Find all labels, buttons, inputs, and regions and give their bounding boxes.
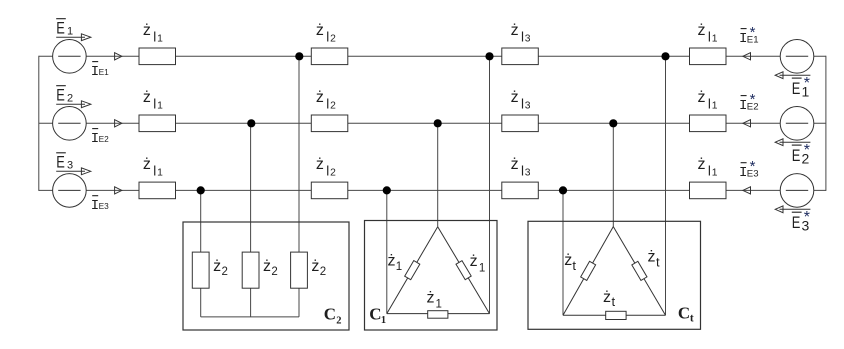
- label E1*: [792, 75, 810, 99]
- label Z2 #2: [263, 258, 278, 278]
- svg-text:ż: ż: [698, 22, 706, 39]
- svg-text:1: 1: [157, 100, 163, 111]
- impedance Zl1 right phase 2: [690, 115, 727, 132]
- wire drop phase1 to C1 right vertex: [489, 56, 491, 313]
- junction node 8: [383, 186, 391, 194]
- svg-text:C: C: [369, 305, 381, 324]
- label Z1 right: [470, 253, 486, 274]
- wire drop phase1 to C2 right: [298, 56, 300, 317]
- svg-text:1: 1: [157, 167, 163, 178]
- svg-text:ż: ż: [316, 89, 324, 106]
- label Zl1 phase 1: [698, 22, 718, 45]
- svg-text:E: E: [792, 147, 801, 165]
- current arrow I_E3*: [743, 187, 751, 194]
- impedance Zl3 phase 1: [502, 48, 539, 65]
- label Zl3 phase 1: [511, 22, 531, 45]
- junction node 2: [485, 52, 493, 60]
- svg-text:2: 2: [330, 33, 336, 44]
- svg-text:ż: ż: [316, 156, 324, 173]
- wire Ct delta left side: [563, 227, 613, 316]
- voltage source E3: [53, 174, 87, 208]
- svg-text:ż: ż: [316, 22, 324, 39]
- svg-text:3: 3: [525, 167, 531, 178]
- svg-text:1: 1: [67, 25, 73, 37]
- svg-text:*: *: [804, 209, 810, 226]
- EMF arrow E1: [56, 34, 91, 41]
- label I_E2: [91, 129, 109, 147]
- label Zl1 phase 2: [143, 89, 163, 112]
- label I_E3*: [739, 158, 759, 181]
- svg-text:l: l: [521, 163, 524, 178]
- wire C2 bottom bus: [201, 316, 299, 318]
- EMF arrow E3*: [775, 206, 810, 213]
- svg-text:*: *: [804, 75, 810, 92]
- wire Ct delta right side: [613, 227, 665, 316]
- svg-text:E: E: [56, 19, 65, 37]
- impedance Zl1 left phase 2: [139, 115, 176, 132]
- svg-text:3: 3: [67, 159, 73, 171]
- svg-text:ż: ż: [263, 258, 271, 275]
- svg-text:l: l: [708, 96, 711, 111]
- impedance Zl1 left phase 1: [139, 48, 176, 65]
- EMF arrow E2*: [775, 139, 810, 146]
- label Zl2 phase 1: [316, 22, 336, 45]
- voltage source E1: [53, 40, 87, 74]
- svg-text:ż: ż: [311, 258, 319, 275]
- wire C1 delta right side: [438, 227, 490, 314]
- svg-text:2: 2: [330, 100, 336, 111]
- svg-text:ż: ż: [427, 289, 435, 306]
- junction node 9: [559, 186, 567, 194]
- svg-text:ż: ż: [143, 89, 151, 106]
- label Zl2 phase 2: [316, 89, 336, 112]
- junction node 6: [609, 119, 617, 127]
- svg-text:t: t: [612, 294, 616, 309]
- wire drop phase3 to Ct left vertex: [562, 190, 564, 315]
- impedance Zl2 phase 2: [311, 115, 348, 132]
- svg-text:l: l: [708, 163, 711, 178]
- voltage source E1*: [780, 40, 814, 74]
- EMF arrow E3: [56, 168, 91, 175]
- impedance Z2 #3: [291, 252, 308, 288]
- impedance Zl2 phase 1: [311, 48, 348, 65]
- svg-text:ż: ż: [698, 89, 706, 106]
- svg-text:ż: ż: [511, 89, 519, 106]
- svg-text:ż: ż: [143, 156, 151, 173]
- svg-text:E1: E1: [99, 67, 110, 77]
- label Zl1 phase 3: [698, 156, 718, 179]
- svg-text:3: 3: [525, 100, 531, 111]
- wire C1 delta left side: [387, 227, 438, 314]
- label Zl2 phase 3: [316, 156, 336, 179]
- svg-text:ż: ż: [511, 22, 519, 39]
- load box C1: [365, 221, 498, 331]
- svg-text:1: 1: [396, 261, 402, 273]
- wire left bus: [38, 56, 40, 191]
- svg-text:1: 1: [712, 100, 718, 111]
- wire right bus: [825, 56, 827, 191]
- svg-text:ż: ż: [648, 249, 656, 266]
- impedance Z2 #1: [192, 252, 209, 288]
- svg-text:2: 2: [330, 167, 336, 178]
- label Z1 bottom: [427, 289, 442, 310]
- label I_E1*: [739, 24, 759, 47]
- wire C1 delta bottom side: [387, 313, 490, 315]
- label Zl1 phase 1: [143, 22, 163, 45]
- svg-text:*: *: [804, 142, 810, 159]
- impedance Zl1 right phase 1: [690, 48, 727, 65]
- impedance Zl2 phase 3: [311, 182, 348, 199]
- impedance Z2 #2: [242, 252, 259, 288]
- svg-text:C: C: [324, 305, 336, 324]
- current arrow I_E1: [115, 53, 122, 60]
- impedance Zt bottom: [606, 311, 626, 319]
- EMF arrow E2: [56, 101, 91, 108]
- svg-text:1: 1: [712, 167, 718, 178]
- svg-text:l: l: [326, 96, 329, 111]
- svg-text:ż: ż: [388, 253, 396, 270]
- label I_E1: [91, 62, 109, 80]
- label Zl3 phase 3: [511, 156, 531, 179]
- voltage source E2: [53, 107, 87, 141]
- svg-text:1: 1: [712, 33, 718, 44]
- wire phase 3 horizontal: [39, 189, 826, 191]
- svg-text:ż: ż: [470, 253, 478, 270]
- voltage source E3*: [780, 174, 814, 208]
- label I_E2*: [739, 91, 759, 114]
- impedance Zt left: [581, 261, 596, 280]
- label Zl1 phase 3: [143, 156, 163, 179]
- svg-text:l: l: [153, 29, 156, 44]
- impedance Zl3 phase 2: [502, 115, 539, 132]
- svg-text:E: E: [792, 80, 801, 98]
- impedance Zl1 left phase 3: [139, 182, 176, 199]
- label Zt left: [564, 252, 576, 273]
- svg-text:2: 2: [67, 92, 73, 104]
- junction node 1: [295, 52, 303, 60]
- label I_E3: [91, 196, 109, 214]
- label Z1 left: [388, 253, 403, 273]
- wire phase 2 horizontal: [39, 122, 826, 124]
- wire drop phase3 to C2 left: [200, 190, 202, 317]
- svg-text:t: t: [690, 313, 694, 325]
- svg-text:2: 2: [222, 266, 228, 278]
- label Ct: [678, 304, 694, 325]
- svg-text:*: *: [750, 158, 756, 175]
- svg-text:l: l: [521, 96, 524, 111]
- svg-text:l: l: [153, 96, 156, 111]
- svg-text:1: 1: [436, 298, 442, 310]
- svg-text:3: 3: [525, 33, 531, 44]
- wire drop phase2 to Ct apex: [612, 123, 614, 226]
- junction node 5: [434, 119, 442, 127]
- svg-text:E: E: [56, 86, 65, 104]
- svg-text:ż: ż: [603, 289, 611, 306]
- svg-text:E: E: [792, 214, 801, 232]
- svg-text:E2: E2: [99, 134, 110, 144]
- svg-text:1: 1: [479, 263, 485, 275]
- label Zt bottom: [603, 289, 616, 309]
- junction node 3: [661, 52, 669, 60]
- EMF arrow E1*: [775, 72, 810, 79]
- load box Ct: [528, 221, 701, 329]
- svg-text:2: 2: [320, 266, 326, 278]
- current arrow I_E2*: [743, 120, 751, 127]
- svg-text:t: t: [656, 255, 660, 270]
- label E3: [56, 153, 73, 172]
- svg-text:l: l: [326, 163, 329, 178]
- svg-text:2: 2: [336, 315, 341, 326]
- label E1: [56, 19, 73, 38]
- svg-text:E3: E3: [99, 201, 110, 211]
- svg-text:ż: ż: [698, 156, 706, 173]
- svg-text:l: l: [326, 29, 329, 44]
- current arrow I_E2: [115, 120, 122, 127]
- svg-text:1: 1: [157, 33, 163, 44]
- label E3*: [792, 209, 810, 233]
- svg-text:*: *: [750, 24, 756, 41]
- svg-text:ż: ż: [213, 258, 221, 275]
- impedance Zl1 right phase 3: [690, 182, 727, 199]
- svg-text:l: l: [521, 29, 524, 44]
- svg-text:l: l: [708, 29, 711, 44]
- svg-text:E: E: [56, 153, 65, 171]
- svg-text:ż: ż: [143, 22, 151, 39]
- impedance Zl3 phase 3: [502, 182, 539, 199]
- wire drop phase2 to C2 middle: [250, 123, 252, 317]
- svg-text:1: 1: [381, 315, 386, 326]
- wire drop phase2 to C1 apex: [437, 123, 439, 226]
- svg-text:ż: ż: [564, 252, 572, 269]
- label C1: [369, 305, 386, 326]
- impedance Z1 bottom: [428, 311, 448, 319]
- impedance Z1 right: [456, 261, 471, 280]
- svg-text:ż: ż: [511, 156, 519, 173]
- voltage source E2*: [780, 107, 814, 141]
- junction node 7: [197, 186, 205, 194]
- svg-text:*: *: [750, 91, 756, 108]
- impedance Zt right: [632, 261, 647, 280]
- wire drop phase1 to Ct right vertex: [665, 56, 667, 315]
- wire phase 1 horizontal: [39, 55, 826, 57]
- svg-text:t: t: [572, 258, 576, 273]
- label E2*: [792, 142, 810, 166]
- wire Ct delta bottom side: [563, 314, 666, 316]
- wire drop phase3 to C1 left vertex: [386, 190, 388, 313]
- label Z2 #1: [213, 258, 228, 278]
- svg-text:l: l: [153, 163, 156, 178]
- current arrow I_E3: [115, 187, 122, 194]
- label E2: [56, 86, 73, 105]
- label Zl1 phase 2: [698, 89, 718, 112]
- svg-text:2: 2: [271, 266, 277, 278]
- junction node 4: [247, 119, 255, 127]
- impedance Z1 left: [405, 261, 420, 280]
- label Zl3 phase 2: [511, 89, 531, 112]
- svg-text:C: C: [678, 304, 690, 323]
- label C2: [324, 305, 342, 327]
- label Zt right: [648, 249, 661, 270]
- load box C2: [183, 222, 349, 330]
- label Z2 #3: [311, 258, 326, 278]
- current arrow I_E1*: [743, 53, 751, 60]
